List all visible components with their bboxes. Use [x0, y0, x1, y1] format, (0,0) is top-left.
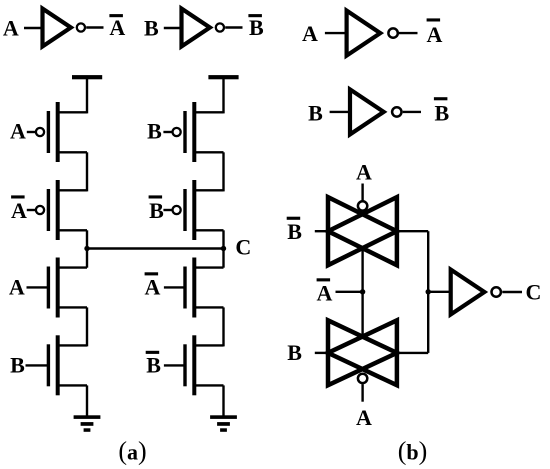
wire U3 output to A-bar: [399, 32, 418, 34]
wire M5 drain to M6 source: [222, 152, 224, 191]
TG2 gate bubble: [358, 374, 367, 383]
svg-text:B: B: [149, 198, 164, 223]
svg-text:A: A: [109, 15, 125, 40]
wire A-bar label to junction: [336, 291, 363, 293]
NMOS M8 gate bar: [183, 344, 186, 386]
svg-text:A: A: [9, 274, 25, 299]
wire M3 source to M4 drain: [86, 307, 88, 346]
inverter U4 output bubble: [392, 107, 401, 116]
transmission gate TG2 left-pointing triangle: [328, 320, 397, 385]
M1 drain lead: [58, 151, 87, 153]
junction dot right bus: [426, 289, 431, 294]
wire U5 output to C: [502, 291, 522, 293]
PMOS M1 channel bar: [56, 102, 60, 162]
wire A down to TG1 bubble: [361, 184, 363, 202]
wire B-bar to M8 gate: [164, 364, 185, 366]
wire A to M1 gate: [27, 131, 35, 133]
M4 drain lead: [58, 344, 87, 346]
NMOS M4 gate bar: [47, 344, 50, 386]
inverter U3 output bubble: [388, 28, 397, 37]
M2 drain lead: [58, 229, 87, 231]
wire B-bar to TG1 left terminal: [315, 230, 327, 232]
M4 source lead: [58, 384, 87, 386]
M1 source lead: [58, 111, 87, 113]
wire TG1 right terminal to right bus: [398, 230, 428, 232]
M6 source lead: [194, 189, 223, 191]
svg-text:B: B: [434, 101, 449, 126]
NMOS M3 gate bar: [47, 267, 50, 309]
PMOS M5 gate bubble: [173, 128, 181, 136]
PMOS M5 channel bar: [192, 102, 196, 162]
svg-text:B: B: [146, 353, 161, 378]
M2 source lead: [58, 189, 87, 191]
NMOS M8 channel bar: [192, 335, 196, 395]
NMOS M7 gate bar: [183, 267, 186, 309]
TG1 gate bubble: [358, 201, 367, 210]
wire VDD to M5 source: [222, 79, 224, 113]
wire junction to inverter U5 input: [428, 291, 452, 293]
VDD rail left stack: [72, 75, 102, 79]
M3 drain lead: [58, 266, 87, 268]
svg-text:C: C: [526, 279, 542, 304]
wire net C horizontal: [87, 247, 224, 249]
wire B-bar to M6 gate: [163, 209, 171, 211]
svg-text:A: A: [10, 119, 26, 144]
svg-text:A: A: [3, 15, 19, 40]
M5 drain lead: [194, 151, 223, 153]
wire B to M4 gate: [26, 364, 49, 366]
NMOS M4 channel bar: [56, 335, 60, 395]
M5 source lead: [194, 111, 223, 113]
gate label B-bar (M8): [146, 351, 162, 378]
gate label A-bar (M2): [11, 195, 27, 223]
junction dot A-bar node: [360, 289, 365, 294]
wire TG2 bubble down to A label: [361, 384, 363, 402]
NMOS M3 channel bar: [56, 258, 60, 318]
svg-text:A: A: [145, 274, 161, 299]
PMOS M6 channel bar: [192, 180, 196, 240]
svg-text:(b): (b): [398, 437, 428, 466]
gate label B-bar (TG1 input): [287, 217, 303, 244]
wire B to M5 gate: [163, 131, 171, 133]
NMOS M7 channel bar: [192, 258, 196, 318]
inverter U5 output bubble: [492, 287, 501, 296]
wire M4 source to ground: [86, 385, 88, 416]
transmission gate TG1 left-pointing triangle: [328, 197, 397, 265]
wire B to TG2 left terminal: [315, 352, 327, 354]
inverter U4 triangle: [350, 89, 384, 134]
inverter U5 triangle: [451, 270, 485, 315]
ground symbol right stack: [210, 415, 237, 432]
svg-text:A: A: [356, 405, 372, 430]
inverter U1 triangle: [43, 9, 71, 47]
M3 source lead: [58, 306, 87, 308]
node label A-bar (U3 output): [427, 18, 443, 47]
wire M7 source to M8 drain: [222, 307, 224, 346]
wire B to U4 input: [330, 111, 352, 113]
svg-text:B: B: [144, 15, 159, 40]
node label B-bar (U2 output): [248, 14, 264, 40]
junction dot node C (left stack): [84, 246, 89, 251]
wire VDD to M1 source: [86, 79, 88, 113]
node label B-bar (U4 output): [434, 97, 450, 126]
wire A-bar to M2 gate: [27, 209, 35, 211]
svg-text:A: A: [11, 198, 27, 223]
wire U1 output to A-bar: [86, 26, 103, 28]
wire M6 drain down to node C: [222, 230, 224, 267]
M7 drain lead: [194, 266, 223, 268]
gate label B-bar (M6): [149, 195, 165, 223]
svg-text:A: A: [356, 159, 372, 184]
svg-text:(a): (a): [118, 437, 146, 466]
transmission gate TG2 right-pointing triangle: [328, 320, 397, 385]
PMOS M5 gate bar: [183, 111, 186, 153]
svg-text:B: B: [147, 119, 162, 144]
svg-text:B: B: [287, 340, 302, 365]
PMOS M1 gate bubble: [36, 128, 44, 136]
junction dot node C (right stack): [221, 246, 226, 251]
wire A to U1 input: [24, 27, 43, 29]
PMOS M2 gate bar: [47, 189, 50, 231]
PMOS M6 gate bar: [183, 189, 186, 231]
PMOS M2 channel bar: [56, 180, 60, 240]
svg-text:B: B: [10, 353, 25, 378]
inverter U1 output bubble: [77, 23, 85, 31]
wire U4 output to B-bar: [403, 111, 421, 113]
wire M1 drain to M2 source: [86, 152, 88, 191]
inverter U2 output bubble: [216, 23, 224, 31]
inverter U3 triangle: [347, 11, 381, 56]
wire right bus vertical (junction to TG2): [427, 292, 429, 353]
wire A to M3 gate: [27, 286, 49, 288]
svg-text:A: A: [427, 22, 443, 47]
wire M2 drain down to node C: [86, 230, 88, 267]
svg-text:A: A: [302, 21, 318, 46]
wire M8 source to ground: [222, 385, 224, 416]
wire TG2 right terminal to right bus: [398, 352, 428, 354]
svg-text:B: B: [249, 15, 264, 40]
PMOS M2 gate bubble: [36, 206, 44, 214]
gate label A-bar (middle control): [317, 278, 333, 305]
PMOS M6 gate bubble: [173, 206, 181, 214]
M8 drain lead: [194, 344, 223, 346]
transmission gate TG1 right-pointing triangle: [328, 197, 397, 265]
wire right bus vertical (TG1 to junction): [427, 231, 429, 292]
gate label A-bar (M7): [145, 272, 161, 299]
wire A-bar to M7 gate: [164, 286, 185, 288]
svg-text:C: C: [235, 235, 251, 260]
svg-text:B: B: [308, 101, 323, 126]
wire U2 output to B-bar: [225, 26, 242, 28]
wire TG1 bottom node down to TG2 top node: [361, 249, 363, 337]
svg-text:B: B: [287, 219, 302, 244]
node label A-bar (U1 output): [109, 14, 125, 40]
M6 drain lead: [194, 229, 223, 231]
M7 source lead: [194, 306, 223, 308]
PMOS M1 gate bar: [47, 111, 50, 153]
inverter U2 triangle: [182, 9, 210, 47]
wire B to U2 input: [164, 27, 182, 29]
wire A to U3 input: [325, 32, 348, 34]
VDD rail right stack: [208, 75, 238, 79]
ground symbol left stack: [74, 415, 101, 432]
M8 source lead: [194, 384, 223, 386]
svg-text:A: A: [317, 280, 333, 305]
